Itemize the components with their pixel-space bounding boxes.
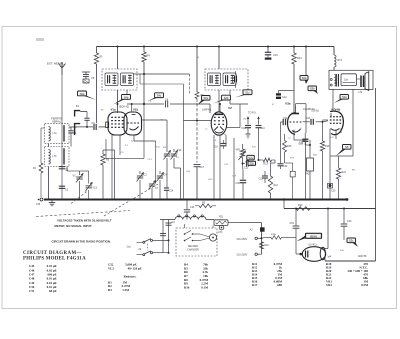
- capacitor C3 aerial: [59, 166, 65, 168]
- HT+ rail: [97, 46, 335, 48]
- mains switch S6a: [143, 241, 145, 243]
- svg-text:LP1: LP1: [218, 231, 223, 234]
- wire grid leak: [103, 149, 115, 151]
- wire L7b bottom to bus: [48, 167, 50, 200]
- svg-text:S2b: S2b: [224, 96, 229, 100]
- record changer stubs: [184, 224, 186, 228]
- small box af: [290, 171, 295, 177]
- inductor R17 choke: [334, 55, 336, 67]
- wire C4: [159, 171, 161, 174]
- svg-text:R17: R17: [338, 59, 343, 62]
- svg-text:R16: R16: [325, 145, 330, 148]
- capacitor C12: [279, 90, 295, 92]
- wire V2 pins: [213, 135, 215, 200]
- svg-text:C51: C51: [290, 222, 295, 225]
- record changer switch: [184, 233, 186, 235]
- svg-text:L/S: L/S: [359, 91, 363, 94]
- svg-text:C19: C19: [273, 54, 278, 57]
- wire V1b anode to osc: [142, 119, 168, 121]
- valve V3a cathode: [292, 129, 301, 132]
- wire af link right: [285, 162, 293, 164]
- wire C7: [151, 188, 153, 200]
- svg-text:AERIAL: AERIAL: [52, 119, 62, 123]
- capacitor C21: [243, 163, 246, 165]
- wire r19: [309, 140, 311, 158]
- resistor R1a aerial return: [40, 128, 42, 163]
- chassis ground symbol: [51, 200, 53, 203]
- output transformer T1 core: [335, 74, 337, 87]
- callout S2a v2grid: [202, 96, 211, 101]
- wire V3a anode out: [295, 104, 297, 106]
- svg-text:R15: R15: [287, 145, 292, 148]
- callout VR2: [122, 95, 131, 100]
- switch S1a contact: [75, 111, 81, 117]
- svg-text:S3b: S3b: [310, 87, 315, 91]
- svg-text:C51: C51: [29, 289, 35, 293]
- valve V1b electrodes: [127, 122, 139, 124]
- svg-text:R42: R42: [305, 173, 310, 176]
- svg-text:924738: 924738: [358, 255, 367, 258]
- resistor R20: [296, 207, 310, 211]
- svg-text:C16: C16: [306, 117, 311, 120]
- svg-text:C23: C23: [347, 220, 352, 223]
- svg-text:S5: S5: [345, 145, 349, 149]
- ferrite core b: [63, 148, 65, 164]
- wire osc join: [166, 164, 168, 188]
- heater choke L10: [175, 216, 206, 219]
- wire V3a top: [293, 47, 295, 54]
- gang dashed link tuning: [104, 184, 158, 216]
- coil L7b box: [45, 147, 69, 167]
- mains switch link: [147, 244, 149, 251]
- wire HT to V1: [96, 47, 98, 54]
- resistor R16: [322, 122, 324, 141]
- svg-text:C23: C23: [259, 178, 264, 181]
- valve V1a envelope: [108, 112, 127, 135]
- wire v2 entry up: [183, 84, 185, 121]
- svg-text:R18a: R18a: [271, 234, 277, 236]
- wire V1b top pin: [131, 104, 133, 112]
- svg-text:R12: R12: [274, 184, 279, 187]
- IFT2 box: [205, 69, 248, 90]
- svg-text:METER, NO SIGNAL INPUT.: METER, NO SIGNAL INPUT.: [54, 224, 92, 228]
- output transformer box: [329, 70, 373, 89]
- wire V3 HT branch: [305, 47, 307, 77]
- wire IF line: [127, 103, 164, 105]
- record changer box: [176, 228, 217, 256]
- callout S4b left: [78, 91, 87, 96]
- svg-text:C16: C16: [214, 147, 219, 149]
- svg-text:C17: C17: [200, 166, 205, 169]
- svg-text:V1a: V1a: [111, 107, 117, 111]
- svg-text:CHANGER: CHANGER: [187, 248, 199, 251]
- svg-text:C12: C12: [282, 96, 287, 99]
- mains switch S6b: [143, 254, 145, 256]
- svg-text:C30: C30: [331, 190, 336, 193]
- wire IFT1 out: [117, 90, 119, 113]
- capacitor C8: [165, 101, 167, 108]
- wire V4 grid left: [323, 119, 329, 121]
- svg-text:210-230V: 210-230V: [237, 254, 248, 257]
- wire IF line b: [170, 103, 210, 105]
- wire V2 left entry: [184, 120, 212, 122]
- wire c5 stub: [85, 72, 87, 75]
- wire right mains vertical: [375, 88, 377, 261]
- svg-text:C5: C5: [91, 76, 95, 80]
- svg-text:V3a: V3a: [285, 102, 291, 106]
- resistor R1: [94, 53, 98, 64]
- loudspeaker LS: [360, 76, 362, 88]
- svg-text:R10: R10: [184, 286, 190, 290]
- svg-text:C26: C26: [36, 204, 41, 206]
- svg-text:68 pF.: 68 pF.: [49, 289, 57, 293]
- svg-text:L7a: L7a: [53, 132, 58, 135]
- svg-text:S2b: S2b: [250, 163, 255, 166]
- heater feed wire: [265, 236, 271, 238]
- resistor R4: [143, 47, 145, 53]
- wire HT corner to OPT: [333, 47, 335, 56]
- wire rect bottom: [324, 257, 326, 261]
- wire choke to box: [333, 67, 335, 70]
- svg-text:R21: R21: [342, 171, 347, 174]
- capacitor C24: [186, 200, 188, 210]
- svg-text:C21: C21: [244, 167, 249, 170]
- svg-text:(UY41): (UY41): [309, 244, 317, 247]
- wire c21: [304, 142, 306, 146]
- svg-text:S4b: S4b: [124, 95, 129, 99]
- callout S2 v2: [222, 95, 231, 100]
- wire V1 pins: [111, 135, 113, 200]
- trimmer VC2: [76, 176, 82, 178]
- capacitor C21: [302, 139, 308, 141]
- capacitor C1: [70, 127, 72, 130]
- svg-text:R13: R13: [264, 163, 269, 166]
- resistor R13: [263, 158, 272, 162]
- wire OPT to V4 anode: [332, 89, 334, 110]
- IFT2 secondary L12: [223, 73, 236, 86]
- svg-text:S1c: S1c: [245, 91, 250, 95]
- svg-text:VOLTAGES TAKEN WITH 20,000Ω/VO: VOLTAGES TAKEN WITH 20,000Ω/VOLT: [57, 219, 112, 223]
- IFT1 primary L8: [105, 73, 118, 86]
- wire ift1 link down: [189, 74, 191, 95]
- resistor R14: [292, 53, 296, 64]
- capacitor C16b bypass: [221, 143, 227, 145]
- label UY41 callout: [306, 233, 322, 238]
- wire ht b plus: [283, 200, 285, 209]
- wire L7a bottom link: [48, 144, 50, 147]
- trimmer VC1: [86, 185, 92, 187]
- wire IFT2 through: [218, 90, 220, 112]
- wire IFT1 feed: [117, 47, 119, 70]
- gang dashed link aerial trim: [71, 191, 88, 204]
- valve V4 envelope: [330, 111, 343, 135]
- switch S3a callout: [300, 76, 308, 81]
- output transformer T1 winding: [341, 74, 357, 86]
- svg-text:C24: C24: [190, 206, 195, 209]
- capacitor C51 reservoir: [295, 209, 297, 226]
- svg-text:C21: C21: [299, 142, 304, 145]
- svg-text:VC: VC: [73, 175, 77, 178]
- rectifier bottom rail: [325, 260, 376, 262]
- wire v2 bottom long: [233, 138, 235, 200]
- svg-text:C13: C13: [177, 149, 182, 152]
- wire cathode bias: [143, 104, 145, 158]
- ground bus: [44, 199, 347, 201]
- wire L7b tap link: [67, 170, 80, 172]
- capacitor C17: [194, 164, 201, 166]
- svg-text:S3a: S3a: [302, 76, 307, 80]
- bus terminal: [40, 198, 43, 201]
- wire c15 down: [305, 144, 307, 200]
- svg-text:6BW6: 6BW6: [310, 234, 318, 238]
- wire af node: [274, 160, 276, 163]
- valve V5 rectifier: [302, 247, 325, 262]
- svg-text:230-250V: 230-250V: [237, 238, 248, 241]
- trimmer C7: [149, 183, 155, 185]
- resistor R12: [270, 163, 272, 176]
- svg-text:Resistors.: Resistors.: [124, 274, 137, 278]
- lamp LP1: [219, 225, 224, 230]
- switch shaft dashed: [196, 99, 198, 163]
- heater chain wire: [160, 219, 175, 221]
- wire V4 pins: [329, 129, 331, 156]
- wire aerial down: [61, 75, 63, 200]
- svg-text:C22: C22: [283, 165, 288, 168]
- svg-text:VR1: VR1: [236, 149, 241, 152]
- wire C17 to bus: [196, 167, 198, 200]
- wire osc grid: [134, 140, 156, 142]
- valve V2 grid structure: [214, 117, 216, 118]
- capacitor C23b: [264, 171, 266, 176]
- switch S2a callout: [247, 155, 255, 159]
- wire V2 anode: [226, 127, 240, 129]
- thermistor R19 box: [307, 158, 314, 171]
- wire to selector: [240, 222, 262, 224]
- coil L7a: [49, 127, 51, 142]
- wire rect in: [295, 231, 297, 254]
- wire vc drop: [88, 171, 90, 184]
- wire rect top: [327, 209, 329, 249]
- wire c6 to V1 grid: [99, 126, 106, 128]
- svg-text:L7b: L7b: [53, 155, 58, 158]
- coil L7b: [49, 150, 51, 165]
- svg-text:VC1: VC1: [93, 187, 98, 190]
- svg-text:680: 680: [277, 283, 282, 287]
- svg-text:Cat.: Cat.: [127, 245, 132, 248]
- capacitor C5 to chassis: [82, 71, 90, 73]
- output transformer terminals: [330, 79, 332, 81]
- svg-text:R3: R3: [108, 288, 112, 292]
- wire vc1 bottom: [88, 190, 90, 200]
- callout S5: [343, 145, 352, 150]
- wire IFT2 sec down: [229, 90, 231, 104]
- svg-text:V1b: V1b: [133, 107, 139, 111]
- svg-text:VL3: VL3: [108, 266, 114, 270]
- svg-text:CIRCUIT DIAGRAM—: CIRCUIT DIAGRAM—: [23, 251, 82, 256]
- wire osc drop: [180, 168, 182, 200]
- wire L7b tap: [66, 167, 68, 172]
- capacitor C4 coupling: [86, 112, 88, 118]
- svg-text:C14: C14: [169, 191, 174, 193]
- aerial A1: [59, 62, 66, 75]
- callout S2c: [347, 238, 356, 243]
- wire L7a top to switch: [69, 126, 77, 128]
- wire trimmer VC2 top: [79, 171, 81, 175]
- svg-text:R17: R17: [252, 283, 258, 287]
- wire IFT1 sec down: [126, 90, 128, 100]
- capacitor C2b aerial: [59, 185, 65, 187]
- wire choke to fuse: [206, 219, 214, 221]
- valve V2 anode bar: [215, 113, 223, 115]
- trimmer C3: [137, 175, 143, 177]
- volume control VR1: [242, 144, 244, 149]
- IFT1 box: [102, 69, 137, 90]
- svg-text:S2a: S2a: [248, 156, 253, 160]
- resistor R3: [102, 150, 104, 154]
- valve V1b envelope: [124, 112, 142, 135]
- svg-text:R14: R14: [297, 57, 302, 60]
- capacitor C18e: [242, 171, 244, 180]
- ferrite core a: [63, 125, 65, 141]
- wire v4 bias box: [330, 155, 345, 157]
- valve V3a grid: [290, 121, 302, 123]
- capacitor C28 in IFT2: [234, 76, 236, 83]
- valve V2 cathode: [214, 127, 224, 134]
- svg-text:A (V4b): A (V4b): [331, 107, 340, 111]
- svg-text:C14: C14: [283, 117, 288, 120]
- wire V3a cathode: [293, 130, 295, 140]
- inductor L4 C13 tuning: [166, 149, 168, 152]
- svg-text:S2c: S2c: [349, 239, 354, 243]
- fuse thermal on selector: [260, 227, 265, 231]
- svg-text:(ECH 42): (ECH 42): [119, 105, 129, 108]
- svg-text:40+120 pF.: 40+120 pF.: [128, 266, 143, 270]
- valve V1a grid structure: [111, 117, 113, 118]
- capacitor C10: [247, 117, 249, 125]
- svg-text:S4a: S4a: [342, 95, 347, 99]
- svg-text:V2: V2: [228, 106, 232, 110]
- resistor R15: [284, 134, 286, 141]
- wire lamp drop C49: [162, 226, 164, 253]
- mains section rail: [284, 208, 376, 210]
- wire ift1 sec link: [140, 83, 184, 85]
- valve V4 grid structure: [330, 116, 332, 117]
- wire C3: [139, 171, 141, 174]
- svg-text:(UAF41): (UAF41): [202, 109, 211, 112]
- svg-text:C11: C11: [261, 127, 266, 130]
- svg-text:0.5M: 0.5M: [361, 283, 368, 287]
- wire IFT2 feed: [218, 47, 220, 70]
- callout S4 near V4: [340, 95, 349, 100]
- svg-text:PHILIPS MODEL F4G31A: PHILIPS MODEL F4G31A: [23, 257, 86, 262]
- ground C10: [246, 133, 251, 135]
- wire heater drop C48: [168, 220, 170, 241]
- callout S4c: [155, 93, 164, 98]
- svg-text:1.5M: 1.5M: [122, 288, 129, 292]
- capacitor C30: [329, 184, 332, 187]
- svg-text:C10: C10: [242, 127, 247, 130]
- svg-text:R19: R19: [265, 245, 270, 247]
- svg-text:S4c: S4c: [157, 94, 162, 98]
- wire OPT secondary return: [352, 89, 354, 156]
- wire s1 common: [75, 126, 93, 128]
- wire vr1 junction: [242, 164, 245, 172]
- gang dashed link switch: [36, 211, 130, 217]
- resistor R19a on selector: [260, 242, 264, 249]
- capacitor C14: [281, 121, 283, 123]
- svg-text:S2a: S2a: [203, 96, 208, 100]
- svg-text:TO P.U.: TO P.U.: [248, 112, 257, 115]
- capacitor C19: [267, 47, 269, 53]
- coil L7a box: [45, 124, 69, 144]
- resistor R21: [338, 156, 340, 168]
- wire V2 top: [219, 104, 221, 113]
- svg-text:R20: R20: [298, 204, 303, 207]
- svg-text:V4: V4: [328, 255, 332, 259]
- wire V2 HT feed: [196, 47, 198, 93]
- IFT1 secondary L9: [121, 73, 134, 86]
- dark blob S2b: [248, 161, 256, 165]
- svg-text:VR2: VR2: [326, 283, 332, 287]
- svg-text:(UL41): (UL41): [312, 109, 320, 112]
- resistor R8: [195, 92, 199, 99]
- valve V3a envelope: [288, 113, 297, 135]
- capacitor C15: [303, 138, 309, 140]
- svg-text:RECORD: RECORD: [188, 246, 198, 248]
- valve V1a side contact: [106, 122, 109, 128]
- svg-text:0.1M: 0.1M: [201, 286, 208, 290]
- svg-text:CIRCUIT DRAWN IN THE RADIO: CIRCUIT DRAWN IN THE RADIO POSITION.: [52, 240, 111, 244]
- svg-text:S4a: S4a: [80, 92, 85, 96]
- resistor R21 box: [214, 220, 228, 226]
- record changer motor: [209, 234, 216, 241]
- trimmer C4: [157, 175, 163, 177]
- wire IFT1 out right: [134, 73, 190, 75]
- switch S3b callout: [308, 86, 317, 91]
- valve V3a anode: [292, 113, 300, 115]
- scan smudge top-left: [36, 38, 44, 41]
- capacitor C6: [93, 124, 95, 130]
- capacitor C23: [343, 209, 345, 224]
- capacitor C16: [303, 121, 310, 123]
- capacitor C11: [258, 117, 260, 125]
- resistor R24: [199, 204, 212, 208]
- valve V2 envelope: [211, 112, 227, 135]
- wire fuse out: [228, 222, 240, 224]
- switch S1b contact: [75, 124, 81, 129]
- IFT2 primary L11: [208, 73, 221, 86]
- svg-text:C18: C18: [236, 182, 241, 185]
- callout S1c: [243, 90, 252, 95]
- valve V4 cathode: [331, 129, 340, 131]
- svg-text:R21: R21: [219, 216, 224, 218]
- wire c16 to v4 grid: [323, 121, 329, 122]
- capacitor C22: [280, 122, 282, 163]
